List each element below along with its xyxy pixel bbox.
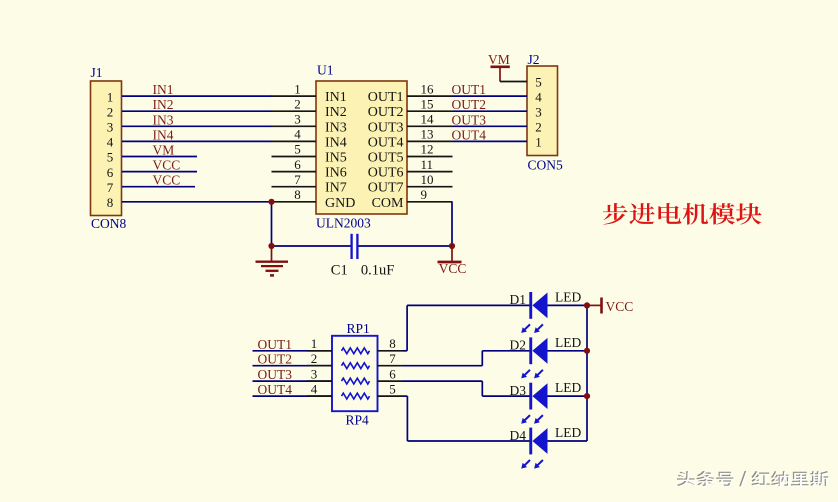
- svg-text:IN2: IN2: [325, 105, 347, 120]
- svg-text:2: 2: [107, 104, 114, 119]
- svg-text:RP4: RP4: [346, 413, 370, 428]
- svg-text:11: 11: [421, 157, 434, 172]
- svg-text:5: 5: [294, 142, 301, 157]
- svg-text:7: 7: [294, 172, 301, 187]
- svg-text:8: 8: [389, 336, 396, 351]
- svg-text:IN4: IN4: [153, 127, 174, 142]
- svg-text:3: 3: [107, 120, 114, 135]
- svg-text:IN3: IN3: [325, 120, 347, 135]
- svg-text:1: 1: [311, 336, 318, 351]
- svg-text:RP1: RP1: [347, 321, 370, 336]
- svg-text:LED: LED: [555, 425, 581, 440]
- svg-text:OUT3: OUT3: [258, 367, 293, 382]
- svg-text:13: 13: [421, 127, 434, 142]
- svg-text:LED: LED: [555, 380, 581, 395]
- svg-text:OUT3: OUT3: [452, 112, 487, 127]
- svg-text:IN2: IN2: [153, 97, 174, 112]
- svg-text:6: 6: [389, 366, 396, 381]
- svg-text:IN1: IN1: [153, 82, 174, 97]
- svg-text:OUT4: OUT4: [258, 382, 293, 397]
- svg-text:VM: VM: [488, 52, 510, 67]
- svg-text:OUT1: OUT1: [368, 90, 404, 105]
- svg-text:4: 4: [535, 89, 542, 104]
- svg-text:D4: D4: [510, 428, 527, 443]
- svg-text:6: 6: [107, 165, 114, 180]
- svg-text:7: 7: [389, 351, 396, 366]
- svg-text:6: 6: [294, 157, 301, 172]
- svg-text:1: 1: [535, 135, 542, 150]
- svg-text:7: 7: [107, 180, 114, 195]
- svg-text:LED: LED: [555, 335, 581, 350]
- svg-text:3: 3: [311, 366, 318, 381]
- svg-text:9: 9: [421, 187, 428, 202]
- svg-text:2: 2: [311, 351, 318, 366]
- svg-text:OUT4: OUT4: [452, 127, 487, 142]
- svg-text:4: 4: [311, 381, 318, 396]
- svg-text:2: 2: [535, 120, 542, 135]
- svg-text:J1: J1: [91, 65, 103, 80]
- svg-text:IN7: IN7: [325, 181, 347, 196]
- svg-text:8: 8: [107, 195, 114, 210]
- svg-text:VCC: VCC: [439, 261, 467, 276]
- svg-text:5: 5: [107, 150, 114, 165]
- svg-text:OUT6: OUT6: [368, 166, 404, 181]
- svg-text:D1: D1: [510, 292, 527, 307]
- svg-text:LED: LED: [555, 289, 581, 304]
- svg-text:IN6: IN6: [325, 166, 347, 181]
- svg-text:ULN2003: ULN2003: [316, 216, 371, 231]
- svg-text:U1: U1: [317, 63, 334, 78]
- svg-text:3: 3: [535, 104, 542, 119]
- svg-text:OUT4: OUT4: [368, 135, 404, 150]
- svg-text:D2: D2: [510, 338, 527, 353]
- svg-text:VCC: VCC: [153, 158, 181, 173]
- svg-text:COM: COM: [372, 196, 404, 211]
- svg-text:OUT5: OUT5: [368, 151, 404, 166]
- svg-text:OUT1: OUT1: [452, 82, 487, 97]
- svg-text:IN4: IN4: [325, 135, 347, 150]
- svg-text:VCC: VCC: [606, 299, 634, 314]
- svg-text:2: 2: [294, 96, 301, 111]
- svg-text:1: 1: [294, 81, 301, 96]
- svg-text:4: 4: [107, 135, 114, 150]
- svg-text:OUT3: OUT3: [368, 120, 404, 135]
- svg-text:12: 12: [421, 142, 434, 157]
- svg-text:5: 5: [535, 75, 542, 90]
- svg-text:J2: J2: [528, 52, 540, 67]
- svg-text:GND: GND: [325, 196, 355, 211]
- svg-text:D3: D3: [510, 383, 527, 398]
- svg-text:3: 3: [294, 112, 301, 127]
- svg-text:8: 8: [294, 187, 301, 202]
- svg-text:VM: VM: [153, 143, 175, 158]
- svg-text:OUT1: OUT1: [258, 337, 293, 352]
- svg-text:OUT2: OUT2: [452, 97, 487, 112]
- svg-text:16: 16: [421, 81, 435, 96]
- svg-text:1: 1: [107, 89, 114, 104]
- svg-text:IN5: IN5: [325, 151, 347, 166]
- svg-text:10: 10: [421, 172, 434, 187]
- svg-text:IN1: IN1: [325, 90, 347, 105]
- svg-text:OUT2: OUT2: [258, 352, 293, 367]
- svg-text:OUT2: OUT2: [368, 105, 404, 120]
- svg-text:15: 15: [421, 96, 434, 111]
- svg-text:14: 14: [421, 112, 435, 127]
- svg-text:VCC: VCC: [153, 173, 181, 188]
- svg-text:C1: C1: [331, 263, 348, 279]
- svg-text:CON8: CON8: [91, 216, 127, 231]
- svg-text:CON5: CON5: [528, 158, 564, 173]
- svg-text:IN3: IN3: [153, 112, 174, 127]
- svg-text:5: 5: [389, 381, 396, 396]
- svg-text:4: 4: [294, 127, 301, 142]
- svg-text:OUT7: OUT7: [368, 181, 404, 196]
- svg-text:0.1uF: 0.1uF: [361, 263, 394, 279]
